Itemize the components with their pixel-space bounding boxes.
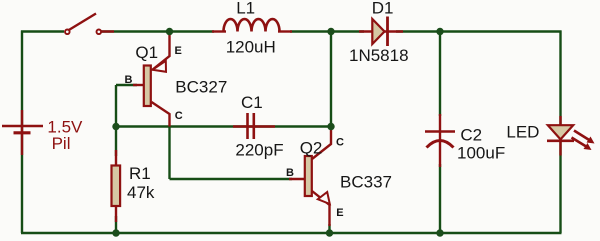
wire: Q1 collector to Q2 base vertical [168, 127, 170, 180]
battery long plate [2, 125, 43, 128]
inductor L1 pins [212, 30, 226, 32]
svg-text:C: C [175, 110, 183, 122]
transistor Q1 emitter arrow (PNP, open) [153, 61, 167, 72]
wire: R1 top [115, 127, 117, 157]
wire: top rail segment switch to L1 [101, 30, 214, 32]
wire: right rail vertical [559, 31, 561, 234]
svg-text:C: C [336, 137, 344, 149]
svg-text:B: B [286, 167, 294, 179]
LED arrow 2 [572, 138, 588, 148]
diode D1 cathode bar [386, 17, 389, 47]
capacitor C1 pins [233, 125, 275, 127]
svg-text:C1: C1 [241, 93, 263, 112]
wire: Q1 base horizontal [116, 84, 137, 86]
battery short plate [14, 131, 31, 134]
switch right contact [97, 30, 102, 35]
svg-text:Pil: Pil [52, 134, 71, 153]
transistor Q2 emitter pin [312, 191, 330, 226]
wire: Q2 emitter bottom [328, 224, 330, 233]
LED cathode bar [547, 140, 574, 143]
svg-text:LED: LED [506, 122, 539, 141]
transistor Q1 collector pin [152, 102, 170, 127]
svg-text:D1: D1 [372, 0, 394, 18]
transistor Q2 base pin [289, 178, 306, 180]
switch left contact [65, 30, 70, 35]
transistor Q2 emitter arrow (NPN, open) [318, 192, 330, 204]
transistor Q1 emitter pin [152, 33, 170, 70]
node: R1 bottom junction [112, 229, 119, 236]
battery B1 wire [21, 110, 23, 155]
svg-text:Q2: Q2 [300, 139, 323, 158]
wire: left rail vertical [21, 31, 23, 234]
diode D1 wire [359, 30, 403, 32]
wire: Q2 base horizontal [170, 178, 293, 180]
svg-text:220pF: 220pF [235, 141, 283, 160]
svg-text:120uH: 120uH [226, 37, 276, 56]
wire: top rail segment L1 to D1 [290, 30, 364, 32]
node: D1-C2 junction [436, 28, 443, 35]
node: Q2 emitter bottom junction [326, 229, 333, 236]
capacitor C1 plate left [246, 113, 249, 139]
resistor R1 pins [115, 150, 117, 222]
wire: C2 bottom vertical [439, 164, 441, 233]
node: C2 bottom junction [436, 229, 443, 236]
svg-text:B: B [125, 74, 133, 86]
transistor Q1 base pin [133, 84, 144, 86]
capacitor C2 plate top [425, 130, 455, 133]
LED D2 wire [559, 116, 561, 156]
svg-text:R1: R1 [129, 164, 151, 183]
wire: top rail segment D1 to right corner [396, 30, 562, 32]
svg-text:E: E [336, 207, 343, 219]
wire: Q1 base vertical [115, 85, 117, 127]
node: R1-C1-base junction [112, 123, 119, 130]
node: L1-D1 junction [327, 28, 334, 35]
wire: C2 top vertical [439, 32, 441, 117]
resistor R1 body [112, 166, 121, 207]
svg-text:1N5818: 1N5818 [349, 46, 409, 65]
transistor Q2 collector pin [312, 128, 331, 159]
wire: bottom rail [21, 232, 562, 234]
capacitor C1 plate right [253, 113, 256, 139]
transistor Q2 body bar [305, 156, 312, 196]
svg-text:C2: C2 [460, 125, 482, 144]
svg-text:100uF: 100uF [457, 144, 505, 163]
LED body triangle [548, 125, 573, 139]
capacitor C2 wire [439, 114, 441, 167]
switch blade [68, 14, 96, 31]
switch SW pin stub right [101, 30, 114, 32]
svg-text:BC337: BC337 [340, 173, 392, 192]
svg-text:E: E [175, 45, 182, 57]
svg-text:Q1: Q1 [135, 43, 158, 62]
inductor L1 coil [224, 19, 280, 31]
node: C1-Q2 collector junction [327, 123, 334, 130]
capacitor C2 plate bottom (curved) [427, 141, 454, 148]
svg-text:47k: 47k [127, 183, 155, 202]
wire: C1 net horizontal [116, 125, 331, 127]
wire: top rail left segment [21, 30, 64, 32]
transistor Q1 body bar [144, 66, 151, 107]
svg-text:BC327: BC327 [175, 77, 227, 96]
wire: node D1-L1 vertical down [330, 32, 332, 127]
diode D1 body [372, 19, 384, 44]
LED arrow 1 [574, 131, 590, 141]
node: Q1 emitter junction [166, 28, 173, 35]
svg-text:L1: L1 [236, 0, 255, 17]
wire: R1 bottom [115, 216, 117, 233]
